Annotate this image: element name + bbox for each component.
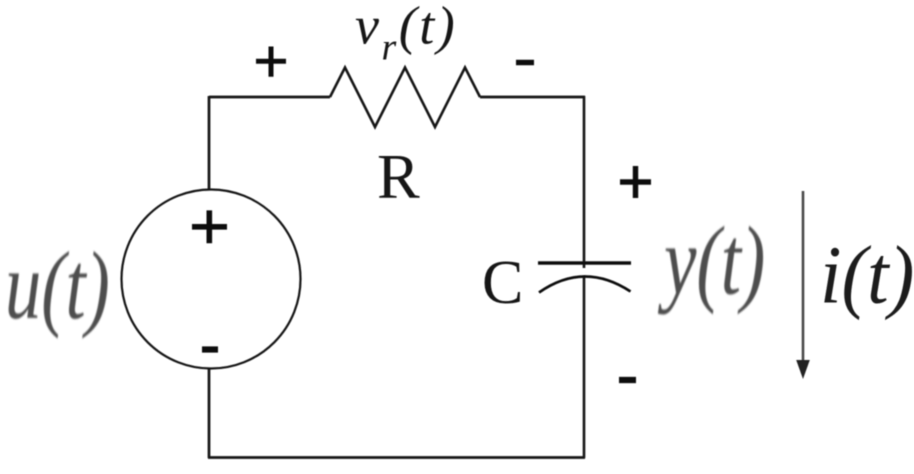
current direction arrow for i(t) — [796, 191, 810, 379]
wire: top-right horizontal from resistor to right rail — [480, 96, 585, 99]
label u(t) — [5, 233, 110, 339]
polarity plus for y(t), above capacitor C — [620, 166, 651, 198]
polarity minus for y(t), below capacitor C — [619, 377, 636, 383]
label y(t) — [657, 206, 765, 314]
wire: right vertical upper (down to capacitor top plate) — [583, 96, 586, 268]
label v_r(t) — [355, 0, 457, 69]
wire: left vertical upper (top wire down to source circle top) — [208, 96, 211, 190]
label i(t) — [820, 230, 914, 321]
voltage source U plus terminal mark — [192, 210, 227, 243]
polarity minus for v_r(t), right of resistor R — [516, 60, 534, 65]
svg-text:R: R — [377, 141, 420, 212]
svg-text:C: C — [482, 249, 523, 317]
svg-text:vr(t): vr(t) — [355, 0, 457, 69]
wire: right vertical lower (capacitor bottom to bottom wire) — [583, 276, 586, 458]
svg-text:u(t): u(t) — [5, 233, 110, 339]
capacitor C top plate — [538, 261, 631, 265]
voltage source U circle — [122, 190, 301, 369]
svg-text:y(t): y(t) — [657, 206, 765, 314]
voltage source U minus terminal mark — [202, 346, 218, 352]
svg-text:i(t): i(t) — [820, 230, 914, 321]
wire: left vertical lower (source circle bottom to bottom wire) — [208, 368, 211, 458]
wire: bottom horizontal — [208, 456, 585, 459]
resistor R zigzag — [330, 68, 480, 128]
polarity plus for v_r(t), left of resistor R — [256, 47, 286, 77]
capacitor C bottom curved plate — [539, 276, 631, 292]
wire: top-left horizontal from source top corner to resistor — [209, 96, 330, 99]
